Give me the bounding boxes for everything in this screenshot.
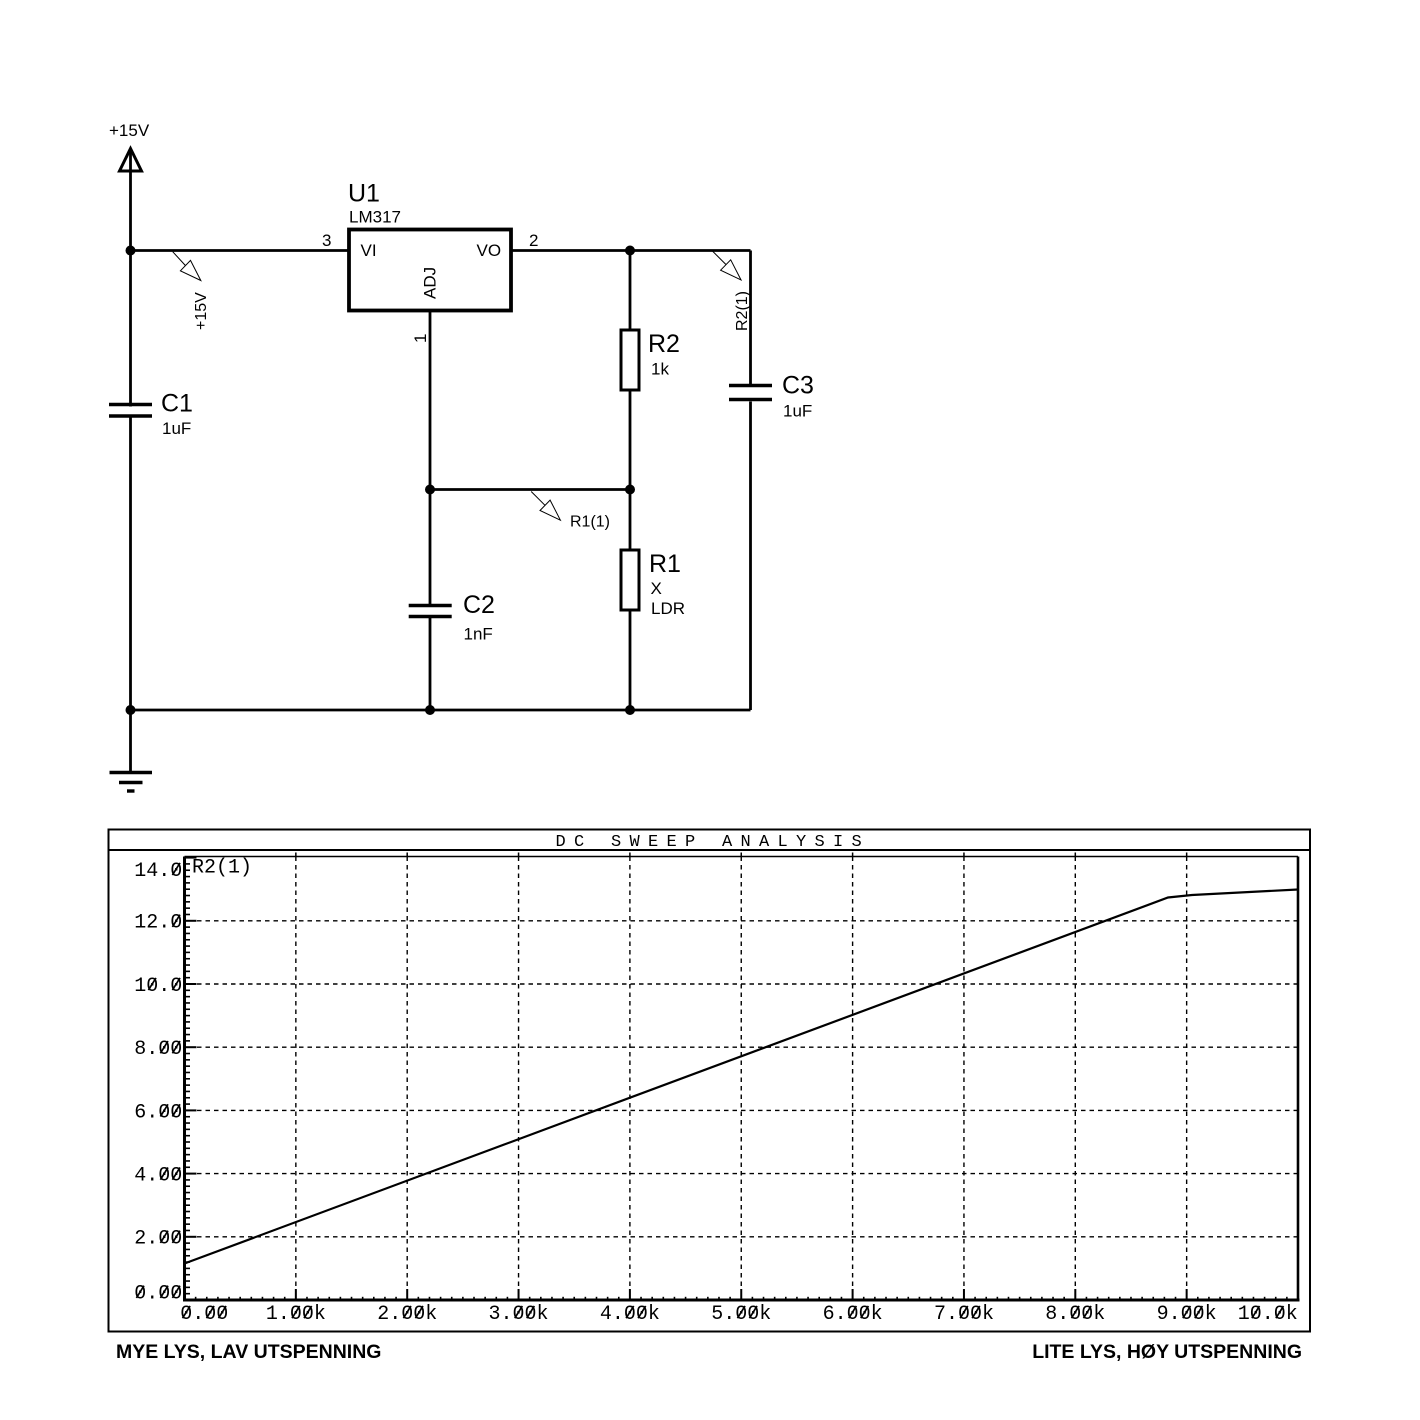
svg-text:1nF: 1nF [464, 625, 493, 644]
svg-text:R1(1): R1(1) [570, 514, 610, 531]
svg-text:C2: C2 [463, 591, 495, 619]
svg-text:2.00k: 2.00k [377, 1303, 437, 1326]
svg-text:DC SWEEP ANALYSIS: DC SWEEP ANALYSIS [556, 833, 871, 852]
svg-text:MYE LYS, LAV UTSPENNING: MYE LYS, LAV UTSPENNING [116, 1341, 381, 1363]
svg-text:VO: VO [477, 241, 502, 260]
svg-text:10.0k: 10.0k [1238, 1303, 1298, 1326]
svg-text:+15V: +15V [193, 292, 210, 330]
svg-text:LDR: LDR [651, 599, 685, 618]
svg-text:1uF: 1uF [162, 419, 191, 438]
svg-text:6.00k: 6.00k [823, 1303, 883, 1326]
svg-text:R2: R2 [648, 330, 680, 358]
svg-text:ADJ: ADJ [421, 267, 440, 299]
svg-text:C1: C1 [161, 390, 193, 418]
svg-text:3: 3 [322, 231, 331, 250]
svg-text:U1: U1 [348, 180, 380, 208]
svg-text:1: 1 [411, 334, 430, 343]
svg-text:LM317: LM317 [349, 208, 401, 227]
svg-text:1k: 1k [651, 360, 669, 379]
svg-text:9.00k: 9.00k [1157, 1303, 1217, 1326]
svg-text:4.00k: 4.00k [600, 1303, 660, 1326]
svg-text:+15V: +15V [109, 121, 150, 140]
svg-text:7.00k: 7.00k [934, 1303, 994, 1326]
svg-text:VI: VI [361, 241, 377, 260]
svg-text:2: 2 [529, 231, 538, 250]
svg-text:3.00k: 3.00k [489, 1303, 549, 1326]
svg-text:5.00k: 5.00k [711, 1303, 771, 1326]
svg-text:8.00k: 8.00k [1045, 1303, 1105, 1326]
svg-text:R1: R1 [649, 550, 681, 578]
svg-text:X: X [651, 579, 662, 598]
svg-text:R2(1): R2(1) [192, 857, 252, 880]
svg-text:1uF: 1uF [783, 402, 812, 421]
svg-text:LITE LYS, HØY UTSPENNING: LITE LYS, HØY UTSPENNING [1032, 1341, 1302, 1363]
svg-text:C3: C3 [782, 372, 814, 400]
svg-text:1.00k: 1.00k [266, 1303, 326, 1326]
svg-text:R2(1): R2(1) [734, 291, 751, 331]
